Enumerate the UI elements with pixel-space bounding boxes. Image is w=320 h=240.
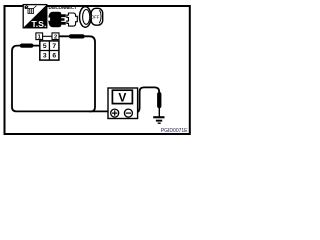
svg-text:T.S.: T.S. [31, 19, 46, 29]
svg-text:DISCONNECT: DISCONNECT [49, 5, 77, 10]
svg-text:PGID0071E: PGID0071E [161, 128, 188, 134]
svg-text:V: V [118, 91, 126, 105]
svg-text:3: 3 [43, 53, 47, 60]
svg-text:OFF: OFF [91, 15, 100, 20]
svg-text:7: 7 [52, 43, 56, 50]
svg-text:1: 1 [38, 34, 41, 40]
svg-text:2: 2 [54, 34, 57, 40]
svg-text:6: 6 [52, 53, 56, 60]
svg-text:5: 5 [43, 43, 47, 50]
